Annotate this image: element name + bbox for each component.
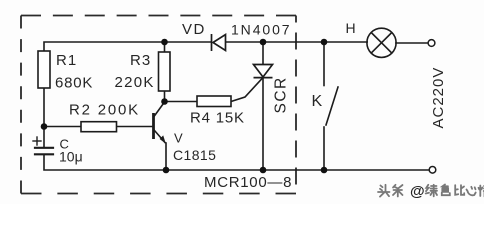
svg-text:V: V: [174, 131, 183, 146]
svg-text:@: @: [410, 183, 425, 200]
svg-text:680K: 680K: [55, 75, 93, 92]
svg-text:10μ: 10μ: [59, 149, 83, 165]
svg-text:R3: R3: [130, 52, 151, 69]
svg-text:R2 200K: R2 200K: [69, 102, 140, 119]
svg-text:AC220V: AC220V: [430, 67, 447, 129]
svg-text:MCR100—8: MCR100—8: [204, 174, 292, 191]
svg-text:1N4007: 1N4007: [231, 22, 291, 38]
svg-text:R1: R1: [56, 52, 77, 69]
svg-text:R4 15K: R4 15K: [190, 110, 245, 127]
svg-text:C1815: C1815: [173, 147, 216, 163]
svg-text:220K: 220K: [115, 74, 155, 91]
svg-text:K: K: [312, 93, 323, 110]
svg-text:H: H: [346, 20, 356, 36]
svg-text:SCR: SCR: [273, 76, 290, 113]
svg-text:VD: VD: [182, 21, 206, 38]
